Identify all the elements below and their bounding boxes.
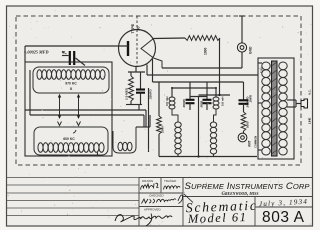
scan speckle (decorative)	[145, 129, 146, 130]
wire to coupling coil	[145, 110, 147, 127]
svg-text:2.0 MEG: 2.0 MEG	[125, 87, 129, 100]
transformer core	[272, 61, 278, 156]
RF choke coil small L4	[171, 88, 173, 97]
resistor 2000 ohm	[158, 82, 160, 116]
svg-text:LINE: LINE	[308, 117, 312, 124]
wire resistor to bus	[219, 38, 221, 95]
resistor 1000 ohm	[185, 36, 220, 41]
tube plate element	[127, 41, 129, 56]
svg-text:GND: GND	[249, 46, 253, 54]
svg-text:803 A: 803 A	[262, 209, 305, 226]
transformer primary winding	[262, 62, 270, 70]
tube grid (dashed lead to top shield)	[136, 16, 138, 67]
svg-text:0.9 mH: 0.9 mH	[165, 97, 169, 106]
wire bus y115	[30, 114, 144, 116]
ANT binding post	[238, 133, 247, 142]
coil plug arrows	[59, 96, 61, 116]
svg-text:970 KC: 970 KC	[65, 82, 77, 86]
wire bus y82	[153, 81, 244, 83]
capacitor .001	[243, 82, 245, 100]
svg-text:600 KC: 600 KC	[63, 137, 75, 141]
wire bus y68	[162, 67, 242, 69]
wire filament top arm to resistor	[154, 37, 186, 40]
A.C. line plug	[287, 99, 296, 101]
plug-in coil L1 (970 KC) box	[33, 67, 109, 93]
svg-text:CHECKED: CHECKED	[149, 194, 165, 198]
GND binding post	[241, 16, 243, 43]
svg-text:5.6 mH: 5.6 mH	[221, 97, 225, 106]
svg-text:COMMON: COMMON	[254, 136, 258, 148]
grid leak resistor 2.0 MEG	[135, 67, 137, 73]
svg-text:2000: 2000	[161, 126, 165, 133]
svg-text:TYPE: TYPE	[131, 23, 135, 33]
wire mid box edge	[148, 88, 150, 152]
title block frame	[139, 177, 313, 179]
RF choke coil small L6	[215, 88, 217, 97]
svg-text:=.00025 MFD: =.00025 MFD	[24, 50, 49, 55]
svg-text:.00025: .00025	[182, 99, 186, 108]
tube filament	[141, 39, 154, 59]
svg-text:DRAWN: DRAWN	[142, 179, 153, 183]
wire bus y95	[199, 94, 231, 96]
wire bus y110	[25, 109, 146, 111]
transformer taps	[258, 62, 262, 64]
wire tube bottom left leg	[146, 65, 148, 76]
wire GND to filament bus	[241, 53, 243, 69]
svg-text:.02MFD: .02MFD	[149, 88, 153, 100]
svg-text:APPROVED: APPROVED	[144, 208, 162, 212]
svg-text:A.C.: A.C.	[308, 89, 312, 95]
revision table rules	[7, 177, 140, 179]
wire bottom bus	[159, 156, 257, 158]
shield enclosure (dashed chassis box)	[16, 16, 301, 165]
resistor 10000 ohm	[241, 112, 246, 131]
svg-text:Model 61: Model 61	[187, 210, 246, 226]
plug-in coil L2 (600 KC) box	[34, 127, 108, 155]
capacitor .0005 (right)	[206, 82, 208, 99]
tube V1 TYPE 30 envelope	[119, 30, 156, 67]
svg-text:110V: 110V	[260, 67, 264, 73]
power transformer T1 shield box	[258, 58, 294, 159]
oscillator coil winding L5	[175, 122, 181, 127]
svg-text:1000: 1000	[204, 47, 208, 55]
antenna coupling coil L3	[113, 127, 136, 153]
plate wire	[25, 45, 128, 47]
svg-text:.1MFD: .1MFD	[249, 95, 253, 103]
svg-text:ANT: ANT	[248, 140, 252, 147]
svg-text:.0005: .0005	[200, 100, 204, 108]
transformer secondary winding	[279, 62, 287, 70]
capacitor .00025 (left)	[189, 82, 191, 99]
svg-text:5000: 5000	[246, 121, 250, 128]
grid capacitor .02 MFD	[140, 72, 142, 89]
wire cap link	[190, 96, 207, 98]
wire bus y75	[147, 74, 258, 76]
wire grid leak bottom node	[126, 104, 142, 106]
svg-text:X: X	[70, 86, 73, 91]
trimmer capacitor .00025 MFD	[69, 51, 71, 65]
wire bus y88	[172, 87, 216, 89]
svg-text:SUPREME INSTRUMENTS CORP: SUPREME INSTRUMENTS CORP	[185, 181, 311, 192]
coil winding L7	[210, 122, 216, 127]
coil shield can	[25, 62, 112, 156]
wire filament bottom arm	[154, 58, 163, 68]
wire cathode leg	[152, 59, 154, 82]
